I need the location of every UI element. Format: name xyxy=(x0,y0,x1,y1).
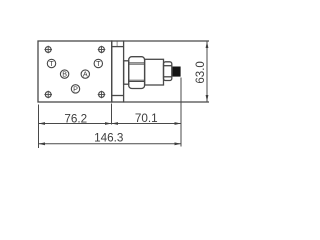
valve body side view xyxy=(112,41,124,102)
extension line right xyxy=(180,78,182,147)
mounting plate face view xyxy=(38,41,112,102)
svg-text:146.3: 146.3 xyxy=(94,132,123,145)
dimension 63.0 vertical line xyxy=(206,42,208,102)
threaded stud xyxy=(173,67,181,77)
hex cap lower facet line xyxy=(129,79,145,81)
svg-text:70.1: 70.1 xyxy=(135,112,158,125)
cartridge neck xyxy=(124,61,129,84)
body top step line xyxy=(112,46,124,48)
port P xyxy=(71,84,79,93)
row1 middle right arrow xyxy=(112,122,119,125)
port T right xyxy=(94,59,102,68)
corner bolt hole top-right xyxy=(98,46,106,54)
row1 right arrow xyxy=(175,122,182,125)
row2 right arrow xyxy=(175,142,182,145)
corner bolt hole bottom-right xyxy=(98,91,106,99)
corner bolt hole bottom-left xyxy=(44,91,52,99)
hex cap upper facet line xyxy=(129,62,145,64)
top extension line xyxy=(124,40,209,42)
port A xyxy=(81,70,89,79)
port B xyxy=(60,70,68,79)
svg-text:T: T xyxy=(96,59,101,68)
svg-text:P: P xyxy=(73,84,78,93)
body step vertical xyxy=(116,41,118,47)
body bottom step line xyxy=(112,95,124,97)
svg-text:B: B xyxy=(62,70,67,79)
extension line middle xyxy=(111,104,113,125)
bottom extension line xyxy=(124,101,209,103)
locknut xyxy=(164,62,172,81)
row1 left arrow xyxy=(39,122,46,125)
svg-text:63.0: 63.0 xyxy=(195,61,207,83)
dimension 63.0 bottom arrow xyxy=(206,95,209,102)
svg-text:A: A xyxy=(83,70,88,79)
locknut lower facet line xyxy=(164,76,172,78)
hex cap xyxy=(129,57,145,89)
locknut upper facet line xyxy=(164,65,172,67)
corner bolt hole top-left xyxy=(44,46,52,54)
cylinder body xyxy=(145,59,164,85)
dimension row1 line xyxy=(39,123,182,125)
dimension 63.0 top arrow xyxy=(206,42,209,49)
svg-text:T: T xyxy=(49,59,54,68)
row1 middle left arrow xyxy=(105,122,112,125)
port T left xyxy=(47,59,55,68)
dimension row2 line xyxy=(39,143,182,145)
extension line left xyxy=(38,105,40,149)
svg-text:76.2: 76.2 xyxy=(64,113,87,126)
row2 left arrow xyxy=(39,142,46,145)
